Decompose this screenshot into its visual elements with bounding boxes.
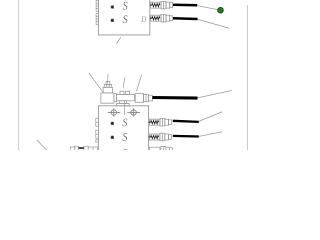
green status dot bbox=[218, 7, 224, 13]
asterisk mark 4 bbox=[111, 136, 114, 139]
cable 1 bbox=[173, 121, 199, 122]
leader to coil valve bbox=[136, 75, 141, 92]
label S row4 bbox=[123, 133, 128, 141]
top box terminal strip 1 bbox=[96, 1, 98, 12]
solenoid 2 bbox=[149, 133, 172, 141]
label S row5 clipped bbox=[123, 149, 128, 157]
label S row2 bbox=[123, 15, 128, 23]
solenoid 1 bbox=[149, 118, 172, 126]
block left tab 1 bbox=[96, 118, 99, 126]
centre line bbox=[123, 101, 125, 115]
left guide line bbox=[18, 0, 20, 150]
label D bbox=[141, 17, 146, 23]
cable 1 leader bbox=[199, 112, 222, 122]
main valve block bbox=[98, 106, 148, 152]
cable 2 bbox=[173, 135, 199, 138]
label S row1 bbox=[123, 2, 128, 10]
check valve body bbox=[114, 91, 134, 106]
coil valve body bbox=[135, 94, 152, 103]
port mark B bbox=[127, 108, 140, 116]
asterisk mark 2 bbox=[111, 19, 114, 22]
top manifold box bbox=[98, 0, 149, 35]
bottom-left valve group clipped bbox=[70, 146, 97, 152]
block left tab 3 bbox=[96, 140, 99, 142]
cable A bbox=[173, 3, 197, 6]
port mark A bbox=[108, 108, 121, 116]
relief valve stack bbox=[101, 82, 114, 104]
solenoid A bbox=[150, 1, 173, 9]
label S row3 bbox=[123, 119, 128, 127]
block left tab 2 bbox=[96, 130, 99, 138]
right guide line bbox=[246, 5, 248, 150]
bottom-left leader line bbox=[37, 140, 47, 151]
solenoid 3 clipped bbox=[150, 146, 173, 154]
leader to valve cap bbox=[107, 74, 109, 83]
leader to relief valve bbox=[89, 73, 103, 92]
leader to check valve bbox=[123, 77, 125, 88]
top box terminal strip 2 bbox=[96, 14, 98, 25]
asterisk mark 1 bbox=[111, 5, 114, 8]
top box callout leader bbox=[117, 37, 121, 43]
cable B leader bbox=[198, 19, 230, 28]
cable 2 leader bbox=[199, 132, 222, 137]
cable B bbox=[173, 17, 198, 20]
cable A leader bbox=[197, 6, 217, 10]
solenoid B bbox=[150, 14, 173, 22]
asterisk mark 3 bbox=[111, 122, 114, 125]
coil valve cable leader bbox=[198, 91, 232, 98]
bottom-left cable stub bbox=[79, 147, 84, 149]
coil valve cable bbox=[152, 96, 197, 100]
